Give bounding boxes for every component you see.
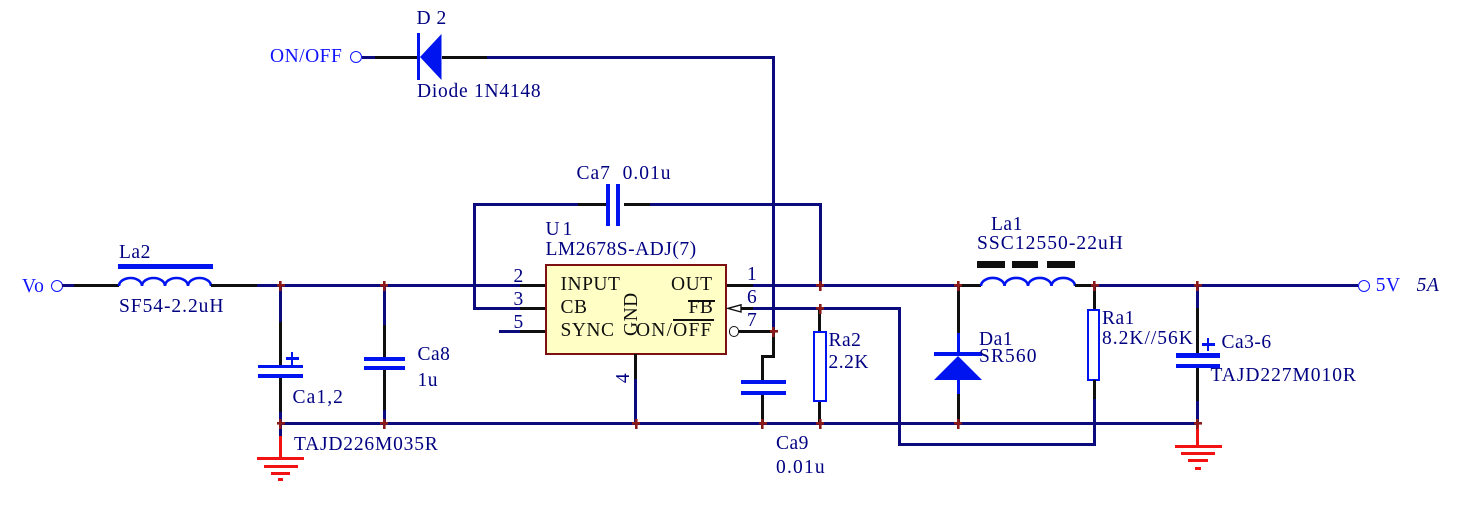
label 2.2K (829, 353, 869, 373)
pin name FB (689, 298, 714, 318)
wire ground rail (279, 422, 1199, 425)
pin number 5 (514, 313, 524, 333)
wire Ca7 left horizontal (473, 203, 578, 206)
capacitor Ca1,2 bottom lead (279, 378, 282, 412)
diode D2 triangle (420, 34, 442, 81)
wire main input rail (257, 284, 520, 287)
wire D2 net vertical (772, 56, 775, 334)
pin U1 pin7 bubble (729, 326, 740, 337)
label U 1 (546, 220, 572, 240)
label La1 (991, 215, 1023, 235)
capacitor Ca8 top lead (383, 284, 386, 325)
wire Da1 bottom stub (957, 380, 960, 394)
pin name FB overline (688, 300, 715, 302)
pin U1 FB arrow (727, 304, 742, 313)
label Ca8 (418, 345, 451, 365)
wire La1 right pin (1075, 284, 1096, 287)
node 5V terminal (1358, 280, 1370, 292)
junction OUT/Ra1 (1091, 281, 1099, 291)
wire La1 left pin (958, 284, 981, 287)
inductor La1 core dashes (977, 261, 1005, 268)
wire D2 anode pin (375, 56, 418, 59)
diode D2 cathode bar (417, 33, 421, 81)
label 0.01u (776, 458, 826, 478)
capacitor Ca7 plates (606, 184, 610, 226)
junction gnd/Ca9 (759, 419, 767, 429)
junction OUT/Da1 (954, 281, 962, 291)
pin name INPUT (561, 275, 621, 295)
label La2 (119, 243, 151, 263)
pin number 7 (747, 311, 757, 331)
junction gnd/Da1 (954, 419, 962, 429)
capacitor Ca1,2 plus sign (286, 357, 299, 360)
wire Ca9 jog vertical1 (772, 332, 775, 359)
junction gnd/Ca3-6 (1194, 419, 1202, 429)
wire OUT row (753, 284, 959, 287)
junction gnd/Ra2 (816, 419, 824, 429)
diode Da1 cathode bar (934, 352, 982, 357)
label SR560 (979, 347, 1038, 367)
wire U1 pin7 stub (739, 330, 774, 333)
capacitor Ca1,2 plates (258, 365, 303, 369)
capacitor Ca3-6 plates (1176, 353, 1220, 357)
wire FB to Ra1 vertical (1093, 399, 1096, 446)
pin name OFF overline (673, 319, 714, 321)
diode Da1 triangle (934, 356, 982, 380)
wire La2 left pin (74, 284, 119, 287)
wire Ra1 bottom pin (1093, 380, 1096, 399)
label Ra1 (1102, 309, 1135, 329)
wire Ra2 top pin (818, 307, 821, 332)
pin name GND rotated (622, 294, 642, 336)
wire U1 pin6 stub (741, 307, 754, 310)
label Diode 1N4148 (417, 82, 541, 102)
pin number 3 (514, 290, 524, 310)
label TAJD226M035R (294, 435, 439, 455)
wire Ra2 bottom pin (818, 402, 821, 425)
wire U1 pin4 black (634, 354, 637, 379)
ground left stem (279, 424, 282, 438)
capacitor Ca8 plates (364, 357, 405, 361)
ground left bars (257, 457, 304, 460)
pin number 6 (747, 288, 757, 308)
wire D2 cathode pin (442, 56, 488, 59)
ground right bars (1175, 445, 1223, 448)
wire U1 pin2 stub (520, 284, 546, 287)
wire Da1 bottom pin (957, 394, 960, 424)
node Vo terminal (51, 280, 63, 292)
wire Ca7 right horizontal (650, 203, 822, 206)
label 5A (1417, 276, 1440, 296)
inductor La1 windings (981, 276, 1075, 288)
label Ca3-6 (1222, 333, 1272, 353)
wire Da1 top pin (957, 284, 960, 333)
junction out/Ca3-6 (1194, 281, 1202, 291)
label Ca1,2 (293, 388, 345, 408)
wire La2 right pin (211, 284, 258, 287)
net label ON/OFF (270, 47, 342, 67)
wire Ra1 top pin (1093, 284, 1096, 309)
label Da1 (979, 330, 1013, 350)
wire Ca9 bottom lead (761, 395, 764, 424)
junction OUT/Ca7 (816, 281, 824, 291)
junction input/Ca8 (380, 281, 388, 291)
capacitor Ca3-6 top lead (1196, 284, 1199, 309)
junction pin7/D2 (770, 327, 778, 337)
net label Vo (22, 277, 44, 297)
op-amp U1 body LM2678S-ADJ (545, 264, 728, 355)
wire ON/OFF stub (362, 56, 375, 59)
capacitor Ca3-6 bottom lead (1196, 368, 1199, 401)
label LM2678S-ADJ(7) (546, 240, 697, 260)
label D 2 (417, 9, 447, 29)
wire Ca7 down vertical (819, 203, 822, 287)
wire D2 to ON/OFF net horizontal (487, 56, 775, 59)
label 1u (418, 371, 439, 391)
wire U1 pin4 blue (634, 379, 637, 424)
junction gnd/Ca8 (380, 419, 388, 429)
label Ra2 (829, 331, 862, 351)
wire output row (1095, 284, 1359, 287)
inductor La2 core bar (118, 264, 213, 269)
label SF54-2.2uH (119, 297, 224, 317)
pin name ON/OFF (636, 321, 713, 341)
wire Vo stub (62, 284, 74, 287)
junction input/Ca12 (277, 281, 285, 291)
pin number 4 rotated (614, 368, 634, 388)
wire SYNC stub (499, 330, 520, 333)
pin name OUT (671, 275, 713, 295)
wire Ca7 left pin (578, 203, 607, 206)
inductor La2 windings (119, 276, 211, 288)
ground right stem (1196, 424, 1199, 447)
capacitor Ca3-6 plus sign (1202, 343, 1215, 346)
label TAJD227M010R (1211, 366, 1357, 386)
wire Ca9 jog horizontal (761, 355, 775, 358)
node ON/OFF terminal (350, 51, 362, 63)
wire U1 pin5 stub (520, 330, 546, 333)
pin name CB (561, 298, 588, 318)
label 8.2K//56K (1102, 329, 1194, 349)
wire FB row (753, 307, 901, 310)
wire Da1 top stub (957, 333, 960, 352)
junction gnd/Ca1,2 (277, 419, 285, 429)
capacitor Ca1,2 top lead (279, 284, 282, 322)
resistor Ra2 body (813, 331, 827, 403)
resistor Ra1 body (1087, 309, 1100, 381)
wire U1 pin1 stub (727, 284, 754, 287)
wire CB row (473, 307, 520, 310)
wire FB return (898, 443, 1096, 446)
label SSC12550-22uH (977, 234, 1124, 254)
capacitor Ca8 bottom lead (383, 370, 386, 410)
pin number 1 (747, 265, 757, 285)
wire Ca7 right pin (624, 203, 650, 206)
label Ca7 0.01u (577, 164, 672, 184)
label Ca9 (776, 434, 809, 454)
net label 5V (1376, 276, 1401, 296)
junction gnd/pin4 (632, 419, 640, 429)
wire CB net vertical (473, 203, 476, 310)
pin number 2 (514, 267, 524, 287)
wire U1 pin3 stub (520, 307, 546, 310)
wire FB vertical (898, 307, 901, 446)
junction FB/Ra2 (816, 304, 824, 314)
pin name SYNC (561, 321, 615, 341)
capacitor Ca9 plates (741, 380, 786, 384)
wire Ca9 top lead (761, 355, 764, 381)
